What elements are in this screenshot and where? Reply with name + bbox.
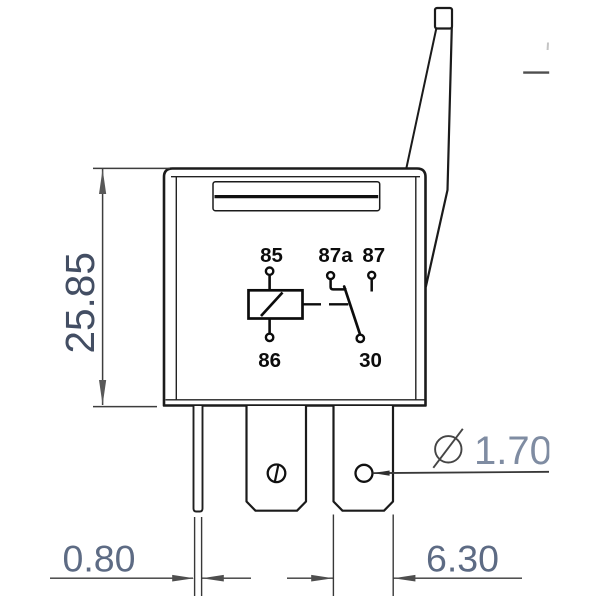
diameter symbol circle xyxy=(435,436,461,462)
dim 6.30 arrow right xyxy=(393,575,415,582)
dim 6.30 arrow left xyxy=(311,575,333,582)
dim 25.85 arrow down xyxy=(99,380,106,405)
label plate xyxy=(213,182,380,211)
svg-text:30: 30 xyxy=(359,349,382,372)
svg-text:86: 86 xyxy=(258,349,281,372)
dim 6.30 line left xyxy=(287,577,333,579)
dim 0.80 line left xyxy=(50,577,193,579)
terminal circle 30 xyxy=(357,335,364,342)
dim 25.85 line xyxy=(102,169,104,405)
mounting tab left slant xyxy=(406,29,436,169)
wire 85 to coil xyxy=(268,275,271,291)
artifact tick top right xyxy=(547,43,549,51)
moving contact arm 30 to 87a xyxy=(344,287,360,335)
relay body outline xyxy=(164,169,426,406)
diameter symbol slash xyxy=(433,429,463,468)
terminal circle 86 xyxy=(266,334,273,341)
terminal circle 87 xyxy=(368,272,375,279)
blade 1 hole slot line xyxy=(275,465,279,482)
terminal circle 85 xyxy=(266,268,273,275)
blade terminal 2 xyxy=(334,406,394,511)
body inner right line xyxy=(415,177,417,400)
svg-text:1.70: 1.70 xyxy=(474,429,552,473)
body inner left line xyxy=(175,177,177,400)
leader arrow xyxy=(373,471,390,476)
terminal pin (0.80) xyxy=(194,406,203,512)
dim 25.85 top extension line xyxy=(93,167,170,169)
dim 25.85 arrow up xyxy=(99,169,106,194)
svg-text:0.80: 0.80 xyxy=(63,538,136,580)
mounting tab right edge xyxy=(426,27,452,287)
dim 6.30 line right xyxy=(393,577,522,579)
coil right lead xyxy=(303,303,322,305)
leader line dia 1.70 xyxy=(373,472,549,473)
pin extension line right xyxy=(201,517,203,596)
dim 0.80 line right xyxy=(202,577,251,579)
mounting tab cap xyxy=(435,8,452,29)
svg-text:85: 85 xyxy=(260,244,283,267)
body inner top line xyxy=(171,176,420,178)
svg-text:6.30: 6.30 xyxy=(426,538,499,580)
dim 0.80 arrow right xyxy=(202,575,224,582)
label plate divider xyxy=(215,195,379,198)
svg-text:87: 87 xyxy=(362,244,385,267)
coil K1 xyxy=(249,290,303,318)
blade2 extension line right xyxy=(392,515,394,597)
body inner bottom line xyxy=(166,399,425,401)
blade 1 hole xyxy=(268,465,286,483)
87 contact stub xyxy=(370,279,373,292)
blade 2 hole xyxy=(356,465,373,482)
artifact dash top right xyxy=(523,71,549,73)
dim 0.80 arrow left xyxy=(172,575,194,582)
wire coil to 86 xyxy=(268,319,271,334)
svg-text:87a: 87a xyxy=(318,244,353,267)
terminal circle 87a xyxy=(327,272,334,279)
blade terminal 1 xyxy=(247,406,307,511)
dim 25.85 bottom extension line xyxy=(93,406,157,408)
armature link segment xyxy=(329,303,348,305)
pin extension line left xyxy=(194,517,196,596)
coil diagonal xyxy=(261,293,283,317)
svg-text:25.85: 25.85 xyxy=(57,252,103,353)
blade2 extension line left xyxy=(332,515,334,597)
87a contact lead xyxy=(331,279,347,290)
